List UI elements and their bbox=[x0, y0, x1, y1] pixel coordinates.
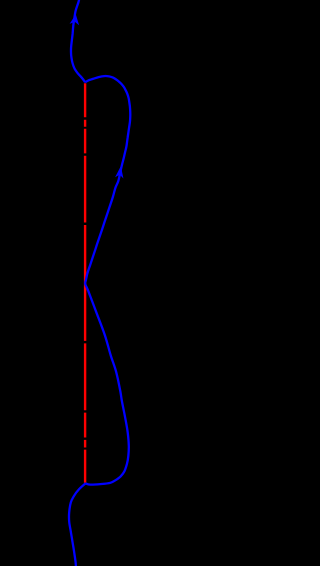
blue contour: bottom tail bbox=[69, 483, 86, 566]
blue contour: lower lobe bbox=[85, 283, 129, 485]
arrowhead on upper lobe bbox=[115, 166, 123, 179]
blue contour: top tail bbox=[69, 0, 130, 566]
arrowhead on top tail bbox=[70, 14, 80, 25]
blue contour: upper lobe bbox=[85, 76, 130, 283]
branch cut (red dashed vertical segment) bbox=[84, 83, 86, 483]
